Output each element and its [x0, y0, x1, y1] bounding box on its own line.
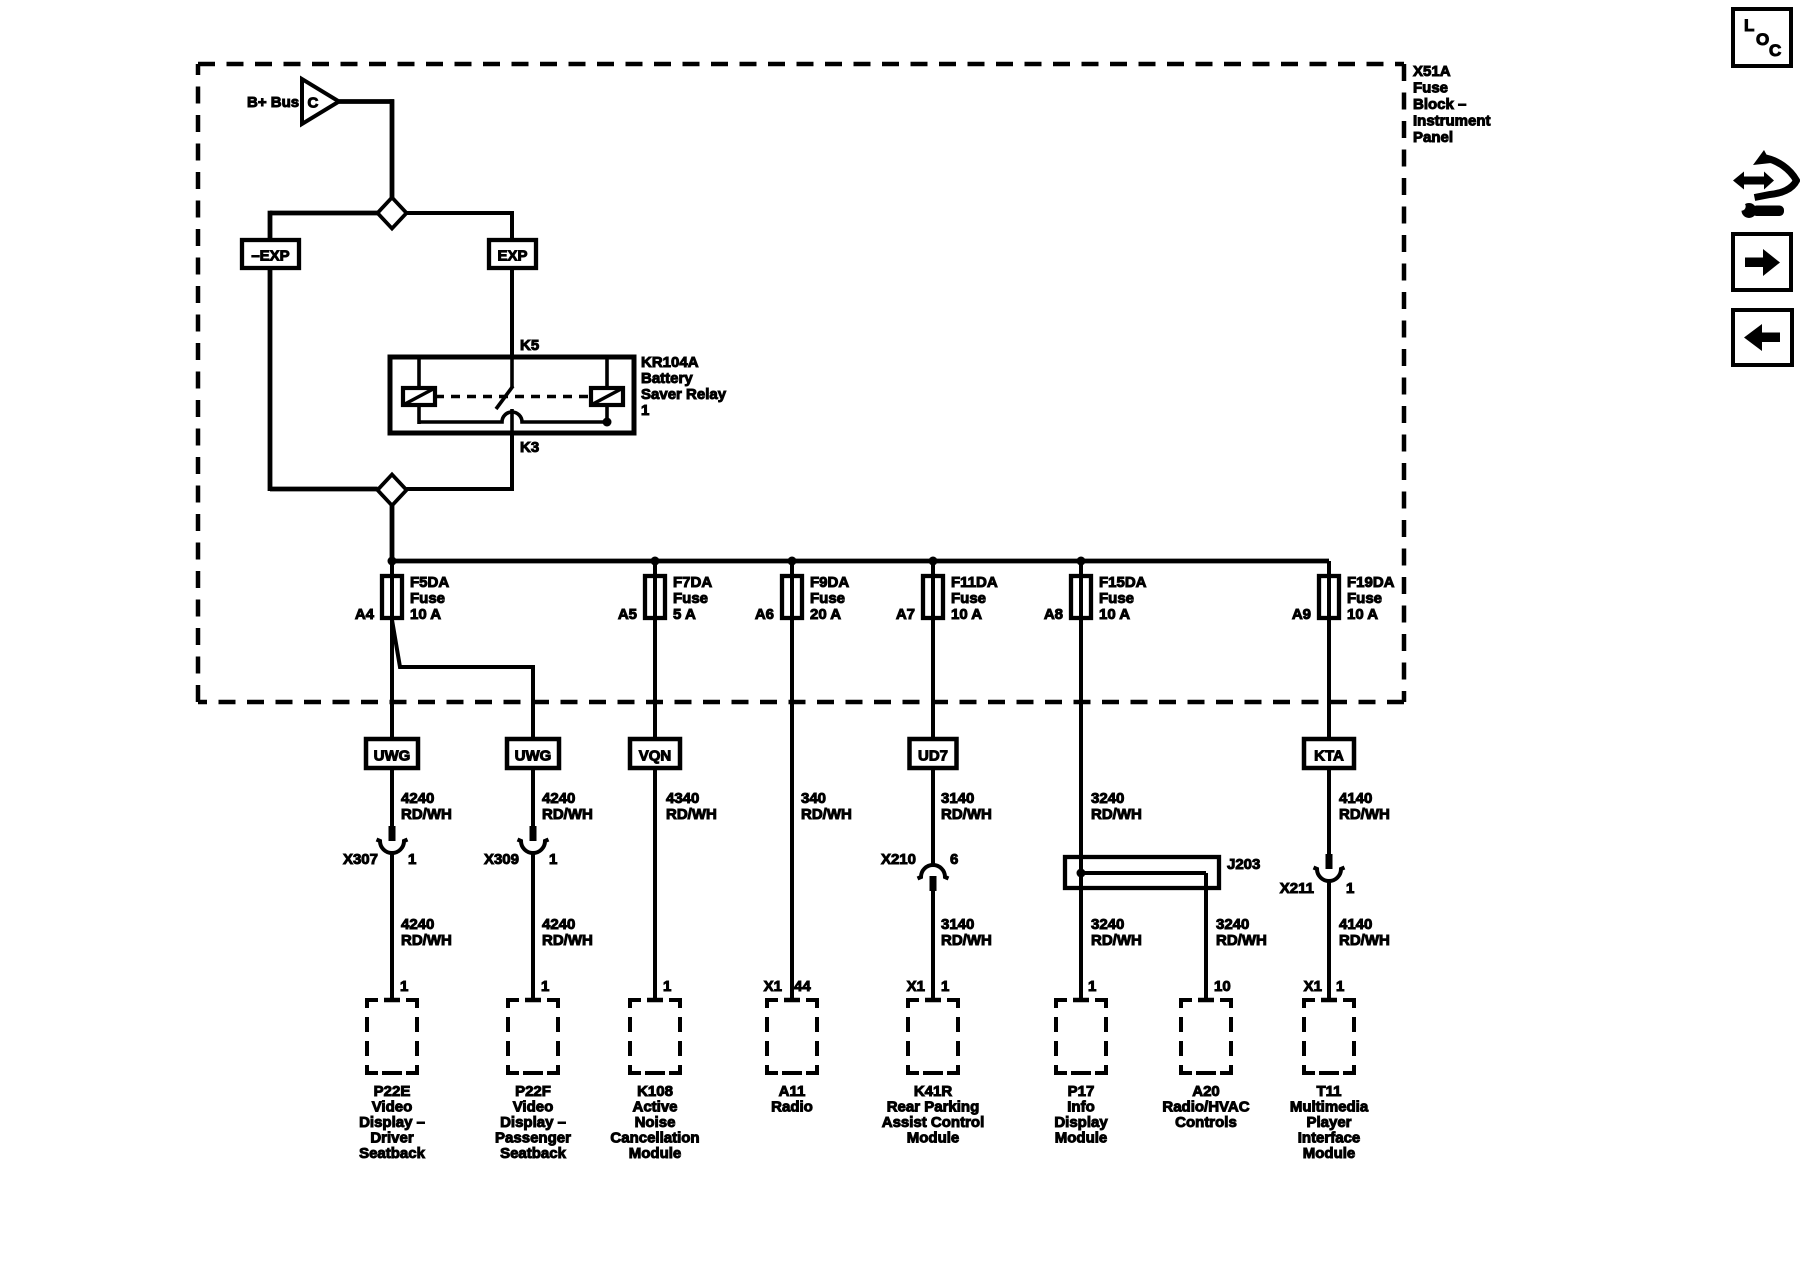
svg-text:Fuse: Fuse — [673, 590, 708, 607]
svg-text:1: 1 — [641, 402, 649, 419]
svg-text:10 A: 10 A — [1099, 606, 1130, 623]
svg-text:A11: A11 — [779, 1083, 806, 1100]
svg-text:RD/WH: RD/WH — [1216, 932, 1267, 949]
svg-text:1: 1 — [1336, 978, 1344, 995]
svg-text:K3: K3 — [520, 439, 539, 456]
svg-text:Fuse: Fuse — [410, 590, 445, 607]
svg-text:3140: 3140 — [941, 790, 974, 807]
svg-text:RD/WH: RD/WH — [801, 806, 852, 823]
svg-text:UWG: UWG — [515, 748, 552, 765]
svg-text:C: C — [308, 95, 319, 112]
svg-text:Fuse: Fuse — [1099, 590, 1134, 607]
svg-text:Module: Module — [629, 1145, 682, 1162]
svg-text:Module: Module — [907, 1130, 960, 1147]
svg-text:B+ Bus: B+ Bus — [247, 94, 299, 111]
svg-text:X1: X1 — [907, 978, 925, 995]
svg-text:A9: A9 — [1292, 606, 1311, 623]
svg-text:Battery: Battery — [641, 370, 693, 387]
svg-text:A7: A7 — [896, 606, 915, 623]
svg-text:A4: A4 — [355, 606, 375, 623]
svg-text:UWG: UWG — [374, 748, 411, 765]
svg-text:340: 340 — [801, 790, 826, 807]
svg-text:Player: Player — [1306, 1114, 1351, 1131]
svg-text:X211: X211 — [1280, 880, 1314, 897]
svg-text:Video: Video — [513, 1099, 554, 1116]
svg-text:P22F: P22F — [515, 1083, 551, 1100]
svg-text:Module: Module — [1303, 1145, 1356, 1162]
svg-text:3240: 3240 — [1091, 916, 1124, 933]
svg-text:4240: 4240 — [542, 916, 575, 933]
svg-text:K108: K108 — [637, 1083, 673, 1100]
svg-text:Saver Relay: Saver Relay — [641, 386, 727, 403]
svg-text:RD/WH: RD/WH — [401, 806, 452, 823]
svg-text:1: 1 — [941, 978, 949, 995]
svg-text:Interface: Interface — [1298, 1130, 1361, 1147]
svg-text:1: 1 — [1088, 978, 1096, 995]
svg-text:Block –: Block – — [1413, 96, 1466, 113]
svg-text:RD/WH: RD/WH — [542, 806, 593, 823]
svg-text:RD/WH: RD/WH — [666, 806, 717, 823]
svg-text:Panel: Panel — [1413, 129, 1453, 146]
svg-text:A8: A8 — [1044, 606, 1063, 623]
svg-text:4340: 4340 — [666, 790, 699, 807]
svg-text:Passenger: Passenger — [495, 1130, 571, 1147]
svg-text:4240: 4240 — [401, 790, 434, 807]
svg-text:Display –: Display – — [500, 1114, 566, 1131]
svg-text:Seatback: Seatback — [500, 1145, 567, 1162]
svg-text:KR104A: KR104A — [641, 354, 699, 371]
svg-text:5 A: 5 A — [673, 606, 696, 623]
svg-text:L: L — [1744, 16, 1754, 35]
svg-text:Display –: Display – — [359, 1114, 425, 1131]
svg-text:Module: Module — [1055, 1130, 1108, 1147]
svg-text:UD7: UD7 — [918, 748, 948, 765]
svg-text:Radio/HVAC: Radio/HVAC — [1162, 1099, 1249, 1116]
svg-text:Multimedia: Multimedia — [1290, 1099, 1369, 1116]
svg-text:Display: Display — [1054, 1114, 1108, 1131]
svg-text:Radio: Radio — [771, 1099, 813, 1116]
svg-text:RD/WH: RD/WH — [1091, 806, 1142, 823]
svg-text:K41R: K41R — [914, 1083, 953, 1100]
svg-text:Controls: Controls — [1175, 1114, 1237, 1131]
svg-text:Info: Info — [1067, 1099, 1095, 1116]
svg-text:Driver: Driver — [370, 1130, 414, 1147]
svg-text:3240: 3240 — [1091, 790, 1124, 807]
svg-text:Assist Control: Assist Control — [882, 1114, 985, 1131]
svg-text:X1: X1 — [1304, 978, 1322, 995]
svg-text:J203: J203 — [1227, 856, 1260, 873]
svg-text:RD/WH: RD/WH — [542, 932, 593, 949]
svg-text:4240: 4240 — [542, 790, 575, 807]
svg-text:4140: 4140 — [1339, 916, 1372, 933]
svg-text:X210: X210 — [881, 851, 916, 868]
svg-text:Active: Active — [632, 1099, 677, 1116]
svg-text:O: O — [1756, 30, 1769, 49]
svg-text:RD/WH: RD/WH — [941, 806, 992, 823]
svg-text:10 A: 10 A — [410, 606, 441, 623]
svg-text:F9DA: F9DA — [810, 574, 849, 591]
svg-text:1: 1 — [541, 978, 549, 995]
svg-text:Fuse: Fuse — [951, 590, 986, 607]
svg-text:Fuse: Fuse — [1413, 80, 1448, 97]
svg-text:T11: T11 — [1316, 1083, 1341, 1100]
svg-text:RD/WH: RD/WH — [1339, 932, 1390, 949]
svg-text:X1: X1 — [764, 978, 782, 995]
svg-text:EXP: EXP — [497, 248, 527, 265]
svg-text:Cancellation: Cancellation — [610, 1130, 699, 1147]
svg-text:4240: 4240 — [401, 916, 434, 933]
svg-text:KTA: KTA — [1314, 748, 1344, 765]
svg-text:C: C — [1769, 41, 1781, 60]
svg-text:P22E: P22E — [374, 1083, 411, 1100]
svg-text:Instrument: Instrument — [1413, 113, 1491, 130]
svg-text:X309: X309 — [484, 851, 519, 868]
svg-text:3140: 3140 — [941, 916, 974, 933]
svg-text:Fuse: Fuse — [1347, 590, 1382, 607]
svg-text:Rear Parking: Rear Parking — [887, 1099, 980, 1116]
svg-text:F19DA: F19DA — [1347, 574, 1395, 591]
svg-text:RD/WH: RD/WH — [1339, 806, 1390, 823]
svg-text:VQN: VQN — [639, 748, 672, 765]
svg-text:10: 10 — [1214, 978, 1231, 995]
svg-text:Video: Video — [372, 1099, 413, 1116]
svg-text:Noise: Noise — [635, 1114, 676, 1131]
svg-text:A6: A6 — [755, 606, 774, 623]
svg-text:3240: 3240 — [1216, 916, 1249, 933]
svg-text:1: 1 — [1346, 880, 1354, 897]
svg-text:Fuse: Fuse — [810, 590, 845, 607]
svg-text:1: 1 — [549, 851, 557, 868]
svg-text:10 A: 10 A — [1347, 606, 1378, 623]
svg-text:P17: P17 — [1068, 1083, 1095, 1100]
svg-text:10 A: 10 A — [951, 606, 982, 623]
svg-text:RD/WH: RD/WH — [1091, 932, 1142, 949]
svg-text:F11DA: F11DA — [951, 574, 998, 591]
svg-text:20 A: 20 A — [810, 606, 841, 623]
svg-text:F5DA: F5DA — [410, 574, 449, 591]
svg-text:6: 6 — [950, 851, 958, 868]
svg-text:4140: 4140 — [1339, 790, 1372, 807]
svg-text:F7DA: F7DA — [673, 574, 712, 591]
svg-text:K5: K5 — [520, 337, 539, 354]
svg-text:1: 1 — [400, 978, 408, 995]
svg-text:A5: A5 — [618, 606, 637, 623]
svg-text:1: 1 — [408, 851, 416, 868]
svg-text:RD/WH: RD/WH — [941, 932, 992, 949]
svg-text:F15DA: F15DA — [1099, 574, 1147, 591]
svg-text:RD/WH: RD/WH — [401, 932, 452, 949]
svg-text:X307: X307 — [343, 851, 378, 868]
svg-text:1: 1 — [663, 978, 671, 995]
svg-text:A20: A20 — [1192, 1083, 1220, 1100]
svg-text:44: 44 — [794, 978, 811, 995]
svg-text:–EXP: –EXP — [251, 248, 289, 265]
svg-text:X51A: X51A — [1413, 63, 1451, 80]
svg-text:Seatback: Seatback — [359, 1145, 426, 1162]
